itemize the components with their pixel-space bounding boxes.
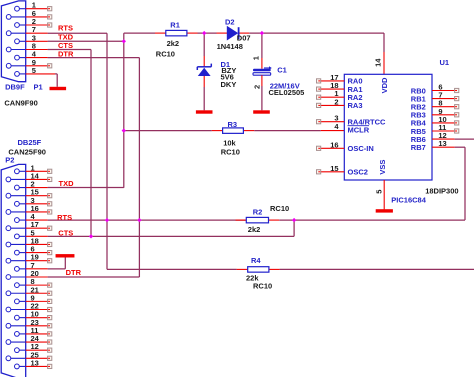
svg-text:16: 16 <box>330 140 338 149</box>
svg-text:2k2: 2k2 <box>248 225 261 234</box>
svg-text:MCLR: MCLR <box>348 126 370 135</box>
svg-text:RC10: RC10 <box>156 49 175 58</box>
svg-text:DB9F: DB9F <box>5 83 25 92</box>
svg-text:RB7: RB7 <box>411 143 426 152</box>
svg-text:14: 14 <box>374 58 383 67</box>
svg-text:15: 15 <box>330 164 338 173</box>
svg-text:RC10: RC10 <box>253 282 272 291</box>
svg-text:R3: R3 <box>228 120 238 129</box>
svg-text:1N4148: 1N4148 <box>217 42 243 51</box>
svg-text:CTS: CTS <box>58 229 73 238</box>
svg-text:R1: R1 <box>170 21 180 30</box>
svg-text:DKY: DKY <box>221 80 237 89</box>
svg-text:CAN9F90: CAN9F90 <box>4 98 37 107</box>
svg-text:VDD: VDD <box>380 77 389 93</box>
svg-text:18DIP300: 18DIP300 <box>425 186 458 195</box>
svg-text:P2: P2 <box>5 155 14 164</box>
svg-text:2k2: 2k2 <box>167 39 180 48</box>
svg-text:2: 2 <box>334 97 338 106</box>
svg-text:RC10: RC10 <box>270 204 289 213</box>
svg-text:13: 13 <box>31 358 39 367</box>
svg-text:PIC16C84: PIC16C84 <box>391 196 426 205</box>
svg-text:2: 2 <box>252 85 261 89</box>
svg-text:OSC-IN: OSC-IN <box>348 144 374 153</box>
svg-text:DB25F: DB25F <box>18 138 42 147</box>
svg-text:DTR: DTR <box>58 50 74 59</box>
svg-text:RTS: RTS <box>57 213 72 222</box>
svg-text:OSC2: OSC2 <box>348 168 368 177</box>
svg-text:RC10: RC10 <box>221 147 240 156</box>
svg-text:R2: R2 <box>253 208 263 217</box>
svg-text:10k: 10k <box>223 139 236 148</box>
svg-text:1: 1 <box>252 56 261 60</box>
svg-text:P1: P1 <box>34 82 43 91</box>
svg-text:R4: R4 <box>251 256 261 265</box>
svg-text:U1: U1 <box>440 58 450 67</box>
svg-text:5: 5 <box>374 190 383 194</box>
svg-text:RTS: RTS <box>58 24 73 33</box>
svg-text:13: 13 <box>438 139 446 148</box>
svg-text:RA3: RA3 <box>348 101 363 110</box>
svg-text:C1: C1 <box>277 65 287 74</box>
svg-text:5: 5 <box>32 66 36 75</box>
svg-text:D2: D2 <box>225 17 235 26</box>
svg-text:CEL02505: CEL02505 <box>269 88 305 97</box>
svg-text:TXD: TXD <box>59 179 75 188</box>
svg-text:VSS: VSS <box>378 160 387 175</box>
svg-text:DTR: DTR <box>66 268 82 277</box>
